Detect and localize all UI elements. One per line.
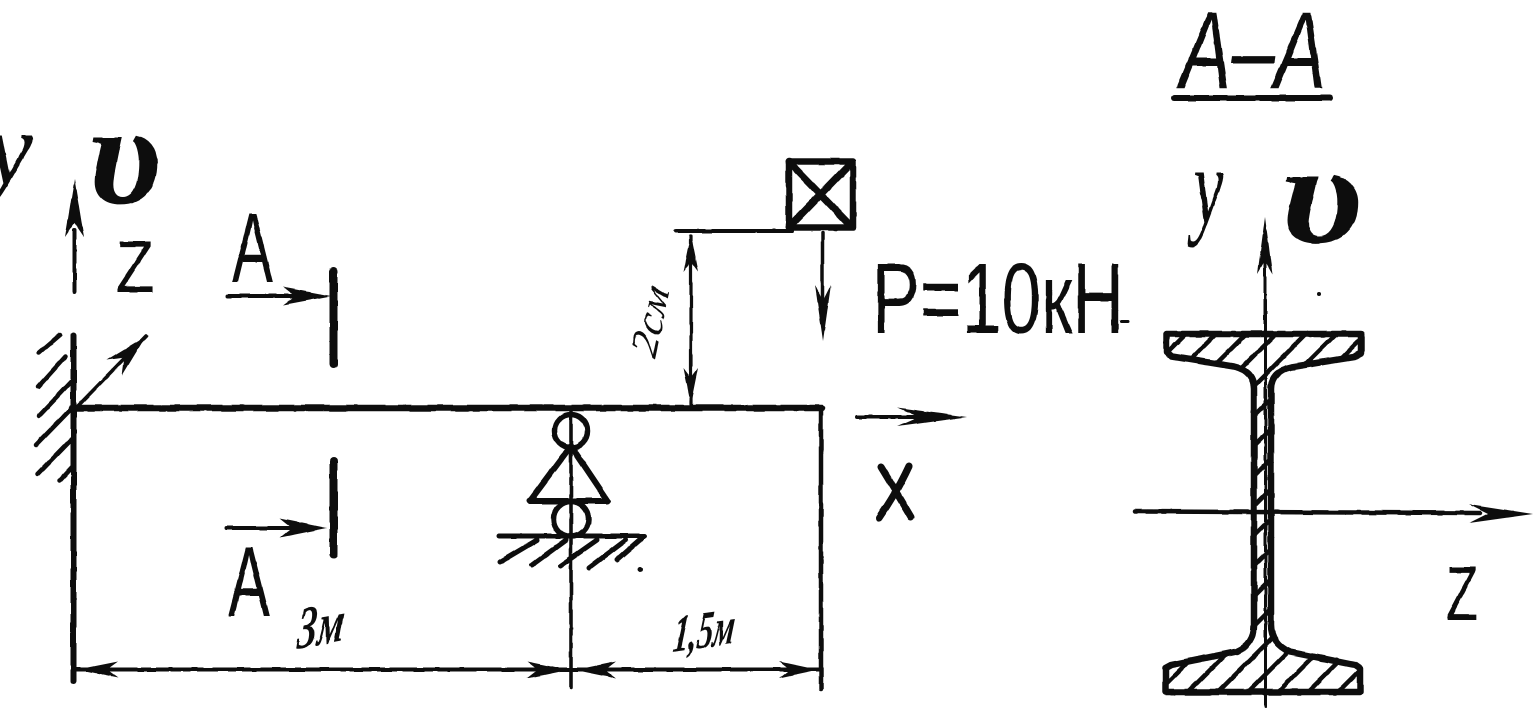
- svg-text:y: y: [1187, 124, 1224, 247]
- label 3m: [294, 588, 347, 662]
- 2cm dimension line: [684, 235, 699, 405]
- ground hatching: [500, 539, 641, 568]
- roller support triangle: [530, 446, 608, 501]
- fixed support wall line: [71, 335, 77, 681]
- label Z (left axis): [116, 227, 154, 308]
- svg-text:A: A: [232, 192, 273, 303]
- section mark tick (bottom): [330, 461, 338, 555]
- diagonal z-axis arrow (left figure): [76, 336, 146, 408]
- dim arrowheads at support centerline: [527, 662, 616, 679]
- section title underline: [1174, 95, 1330, 101]
- svg-text:υ: υ: [1280, 116, 1363, 273]
- extension line for 2cm dim: [676, 229, 792, 233]
- svg-text:3м: 3м: [294, 588, 347, 662]
- label v (upsilon, left): [88, 76, 161, 234]
- section arrow (bottom): [227, 519, 327, 538]
- svg-text:P=10кН: P=10кН: [872, 243, 1124, 355]
- beam top line: [72, 405, 822, 412]
- section mark tick (top): [330, 271, 338, 364]
- label Z (section): [1446, 551, 1478, 637]
- roller support lower circle: [554, 502, 589, 537]
- dim arrowhead left (at wall): [78, 662, 118, 678]
- I-beam hatching: [1120, 100, 1420, 711]
- label y (section): [1187, 124, 1224, 247]
- label y (left axis): [0, 90, 33, 207]
- section vertical centerline: [1264, 300, 1267, 707]
- label P=10kN: [872, 243, 1124, 355]
- y-axis arrow (left figure): [65, 179, 84, 292]
- bottom dimension line: [76, 668, 820, 672]
- load force arrow P: [815, 233, 831, 341]
- svg-text:Z: Z: [1446, 551, 1478, 637]
- ground dot: [638, 567, 643, 572]
- section arrow (top): [228, 287, 331, 305]
- label v (upsilon, section): [1280, 116, 1363, 273]
- load application box: [789, 162, 853, 228]
- label A (top): [232, 192, 273, 303]
- svg-text:υ: υ: [88, 76, 161, 234]
- svg-text:y: y: [0, 90, 33, 207]
- roller ground line: [499, 534, 644, 539]
- svg-text:Z: Z: [116, 227, 154, 308]
- section title A-A: [1176, 0, 1326, 112]
- I-beam cross-section outline: [1166, 334, 1362, 692]
- svg-text:1,5м: 1,5м: [671, 597, 739, 664]
- dim arrowhead right (at beam end): [779, 662, 819, 679]
- svg-text:A: A: [228, 526, 270, 637]
- speck near section centerline: [1317, 292, 1321, 296]
- label 2cm (rotated): [623, 279, 678, 362]
- beam right edge line: [819, 410, 824, 689]
- label 1,5m: [671, 597, 739, 664]
- label A (bottom): [228, 526, 270, 637]
- roller support upper circle: [555, 415, 588, 448]
- support centerline: [569, 412, 573, 688]
- z-axis arrow (section): [1135, 504, 1533, 523]
- speck after label: [1121, 321, 1128, 324]
- label x: [879, 466, 911, 518]
- y-axis arrow (section): [1258, 217, 1273, 330]
- x-axis arrow: [857, 408, 967, 427]
- wall hatching: [36, 335, 74, 480]
